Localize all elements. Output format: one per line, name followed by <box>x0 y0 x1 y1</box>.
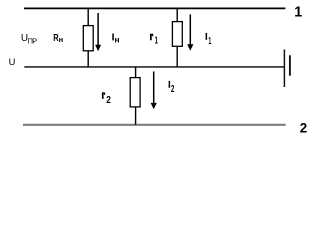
wire: r1 bottom lead <box>176 46 178 67</box>
svg-text:1: 1 <box>294 5 302 21</box>
wire: r2 bottom lead <box>135 107 137 125</box>
resistor r2 <box>130 78 140 107</box>
wire: Rn top lead <box>87 8 89 25</box>
resistor Rн <box>83 26 93 51</box>
label r2 <box>102 92 111 106</box>
svg-text:2: 2 <box>106 95 111 106</box>
wire: r2 top lead <box>135 67 137 78</box>
label I1 <box>206 33 212 47</box>
svg-text:2: 2 <box>300 121 307 136</box>
label I2 <box>169 81 175 95</box>
resistor r1 <box>172 22 182 47</box>
label Iн <box>112 34 119 45</box>
current arrow Iн <box>95 13 101 51</box>
battery plate short (right terminal) <box>289 55 291 75</box>
wire: top rail (node 1) <box>24 7 285 9</box>
svg-text:н: н <box>59 35 64 44</box>
label Rн <box>53 33 63 44</box>
wire: Rn bottom lead <box>87 51 89 67</box>
svg-text:2: 2 <box>171 84 175 95</box>
label r1 <box>150 34 158 47</box>
svg-text:1: 1 <box>155 36 158 47</box>
current arrow I2 <box>151 72 157 110</box>
wire: middle rail (node U) <box>24 66 284 68</box>
svg-text:н: н <box>115 35 120 45</box>
wire: bottom rail (node 2) <box>23 124 286 126</box>
svg-text:1: 1 <box>208 36 211 47</box>
label U_ПР <box>21 33 37 45</box>
svg-text:U: U <box>9 56 16 67</box>
svg-text:ПР: ПР <box>28 36 38 45</box>
current arrow I1 <box>187 14 193 50</box>
battery plate long (right terminal) <box>283 50 285 88</box>
wire: r1 top lead <box>176 8 178 21</box>
